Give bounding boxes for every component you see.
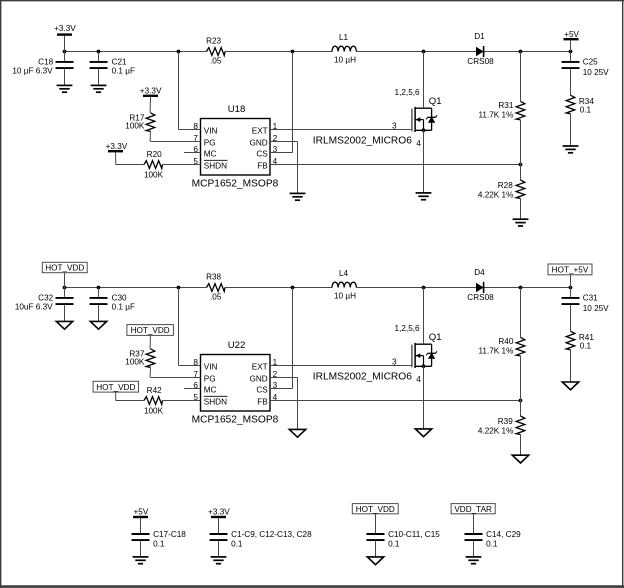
svg-text:EXT: EXT [252,126,268,135]
svg-text:C25: C25 [583,58,598,67]
svg-text:4: 4 [416,139,421,148]
svg-text:0.1: 0.1 [580,342,592,351]
svg-text:+3.3V: +3.3V [140,87,162,96]
svg-text:10 25V: 10 25V [583,68,609,77]
svg-text:R23: R23 [206,37,221,46]
svg-text:CS: CS [256,385,268,394]
svg-text:4.22K 1%: 4.22K 1% [478,427,514,436]
svg-text:R38: R38 [206,273,221,282]
svg-text:+5V: +5V [134,507,149,516]
svg-text:100K: 100K [125,358,145,367]
svg-text:CS: CS [256,149,268,158]
svg-text:4.22K 1%: 4.22K 1% [478,191,514,200]
svg-text:MC: MC [204,385,217,394]
svg-text:3: 3 [392,121,397,130]
svg-text:.05: .05 [210,57,222,66]
svg-text:+5V: +5V [564,30,579,39]
svg-text:CRS08: CRS08 [467,293,494,302]
svg-text:Q1: Q1 [429,332,442,343]
svg-text:Q1: Q1 [429,96,442,107]
svg-text:D4: D4 [474,268,485,277]
svg-text:SHDN: SHDN [204,161,227,170]
svg-text:R39: R39 [498,417,513,426]
svg-text:R40: R40 [498,337,513,346]
svg-text:MCP1652_MSOP8: MCP1652_MSOP8 [192,414,279,425]
svg-text:HOT_VDD: HOT_VDD [96,383,135,392]
svg-text:HOT_VDD: HOT_VDD [45,264,84,273]
svg-text:L1: L1 [339,33,349,42]
svg-text:+3.3V: +3.3V [106,142,128,151]
svg-text:0.1: 0.1 [486,539,498,548]
svg-text:100K: 100K [144,406,164,415]
svg-text:11.7K 1%: 11.7K 1% [478,347,513,356]
svg-text:C17-C18: C17-C18 [153,530,186,539]
svg-text:0.1 µF: 0.1 µF [112,302,135,311]
svg-text:C18: C18 [38,58,53,67]
svg-text:L4: L4 [339,269,349,278]
svg-text:IRLMS2002_MICRO6: IRLMS2002_MICRO6 [313,136,412,147]
svg-text:PG: PG [204,138,216,147]
svg-text:HOT_+5V: HOT_+5V [552,266,589,275]
svg-text:FB: FB [257,161,268,170]
svg-text:GND: GND [249,138,267,147]
svg-text:C14, C29: C14, C29 [486,530,521,539]
svg-text:11.7K 1%: 11.7K 1% [478,111,513,120]
svg-text:EXT: EXT [252,362,268,371]
svg-text:C21: C21 [112,58,127,67]
svg-text:U22: U22 [228,340,246,351]
svg-text:C10-C11, C15: C10-C11, C15 [388,530,440,539]
svg-text:IRLMS2002_MICRO6: IRLMS2002_MICRO6 [313,372,412,383]
svg-text:HOT_VDD: HOT_VDD [356,505,395,514]
svg-text:C30: C30 [112,294,127,303]
svg-text:SHDN: SHDN [204,397,227,406]
svg-text:100K: 100K [125,122,145,131]
svg-text:U18: U18 [228,104,246,115]
svg-text:R20: R20 [147,150,162,159]
svg-text:100K: 100K [144,170,164,179]
svg-text:MC: MC [204,149,217,158]
svg-text:3: 3 [392,357,397,366]
svg-text:10 µF 6.3V: 10 µF 6.3V [12,66,53,75]
svg-text:10 µH: 10 µH [334,291,356,300]
svg-text:4: 4 [416,375,421,384]
svg-text:HOT_VDD: HOT_VDD [131,326,170,335]
svg-text:1,2,5,6: 1,2,5,6 [395,88,420,97]
svg-text:C31: C31 [583,294,598,303]
svg-text:10uF 6.3V: 10uF 6.3V [15,302,53,311]
svg-text:R31: R31 [498,101,513,110]
svg-text:0.1 µF: 0.1 µF [112,66,135,75]
svg-text:MCP1652_MSOP8: MCP1652_MSOP8 [192,178,279,189]
svg-text:+3.3V: +3.3V [54,24,76,33]
svg-text:PG: PG [204,374,216,383]
svg-text:0.1: 0.1 [231,539,243,548]
svg-text:10 25V: 10 25V [583,304,609,313]
svg-text:GND: GND [249,374,267,383]
svg-text:C1-C9, C12-C13, C28: C1-C9, C12-C13, C28 [231,530,312,539]
svg-text:FB: FB [257,397,268,406]
svg-text:R28: R28 [498,181,513,190]
svg-text:10 µH: 10 µH [334,55,356,64]
svg-text:.05: .05 [210,293,222,302]
svg-text:CRS08: CRS08 [467,57,494,66]
svg-text:1,2,5,6: 1,2,5,6 [395,324,420,333]
svg-text:VIN: VIN [204,362,218,371]
svg-text:D1: D1 [474,32,485,41]
svg-text:0.1: 0.1 [580,106,592,115]
svg-text:+3.3V: +3.3V [208,507,230,516]
svg-text:C32: C32 [38,294,53,303]
svg-text:0.1: 0.1 [388,539,400,548]
svg-text:VIN: VIN [204,126,218,135]
svg-text:VDD_TAR: VDD_TAR [454,505,492,514]
svg-text:0.1: 0.1 [153,539,165,548]
svg-text:R42: R42 [147,386,162,395]
